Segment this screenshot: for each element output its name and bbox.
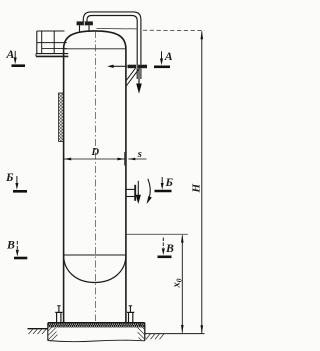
section mark Б right — [155, 175, 174, 191]
svg-text:Б: Б — [165, 175, 174, 189]
svg-text:В: В — [6, 238, 15, 252]
shell right wall — [125, 49, 127, 323]
svg-text:В: В — [165, 241, 174, 255]
section mark В left — [6, 238, 27, 259]
anchor chair right — [127, 306, 134, 323]
ladder strip (hatched) on left wall — [59, 93, 64, 142]
section mark A right — [154, 49, 173, 67]
shell left wall — [63, 49, 65, 323]
foundation left edge — [47, 323, 49, 341]
dimension H — [191, 31, 204, 333]
section mark A left — [6, 47, 26, 66]
ground line left — [28, 328, 48, 330]
svg-text:А: А — [6, 47, 15, 61]
top nozzle flange — [77, 21, 93, 25]
extension line at level B (top of x0) — [127, 233, 188, 235]
foundation right edge — [144, 323, 146, 341]
svg-text:А: А — [164, 49, 173, 63]
svg-text:D: D — [91, 147, 100, 158]
anchor chair left — [55, 306, 62, 323]
pipe outlet flange — [128, 65, 148, 69]
foundation bottom (freehand) — [48, 340, 145, 341]
svg-text:Б: Б — [5, 170, 14, 184]
section mark Б left — [5, 170, 27, 191]
side nozzle (at section Б) — [126, 185, 135, 201]
overhead pipe outer line — [83, 12, 141, 65]
flow arrow left at outlet — [107, 65, 127, 68]
ground hatch right — [146, 334, 164, 339]
svg-text:s: s — [137, 149, 142, 160]
grout zigzag strip — [48, 323, 145, 327]
flow arrow down at side nozzle — [136, 181, 141, 204]
bottom head — [64, 255, 126, 283]
flow arrow down at outlet — [136, 68, 142, 94]
outlet stub pipe — [137, 68, 141, 79]
ground hatch left — [29, 329, 47, 334]
dimension x0 — [172, 235, 184, 333]
platform (service platform at top left) — [36, 31, 68, 56]
top nozzle neck — [80, 25, 90, 32]
top head (elliptical head) — [64, 31, 126, 49]
top tangent line — [64, 48, 126, 50]
gusset braces — [126, 68, 139, 86]
H extension line at top — [97, 28, 137, 30]
section mark В right — [158, 238, 175, 257]
svg-text:H: H — [191, 184, 203, 194]
dimension D — [64, 147, 125, 166]
foundation corner hatch right — [138, 324, 145, 341]
dimension s (wall thickness) — [128, 149, 146, 160]
bottom tangent line — [64, 254, 126, 256]
foundation top line — [48, 322, 145, 324]
curved flow arrow at side nozzle — [147, 179, 152, 204]
foundation corner hatch left — [48, 325, 58, 342]
overhead pipe inner line — [87, 16, 137, 65]
centerline — [94, 31, 96, 321]
ground line right — [145, 333, 205, 335]
